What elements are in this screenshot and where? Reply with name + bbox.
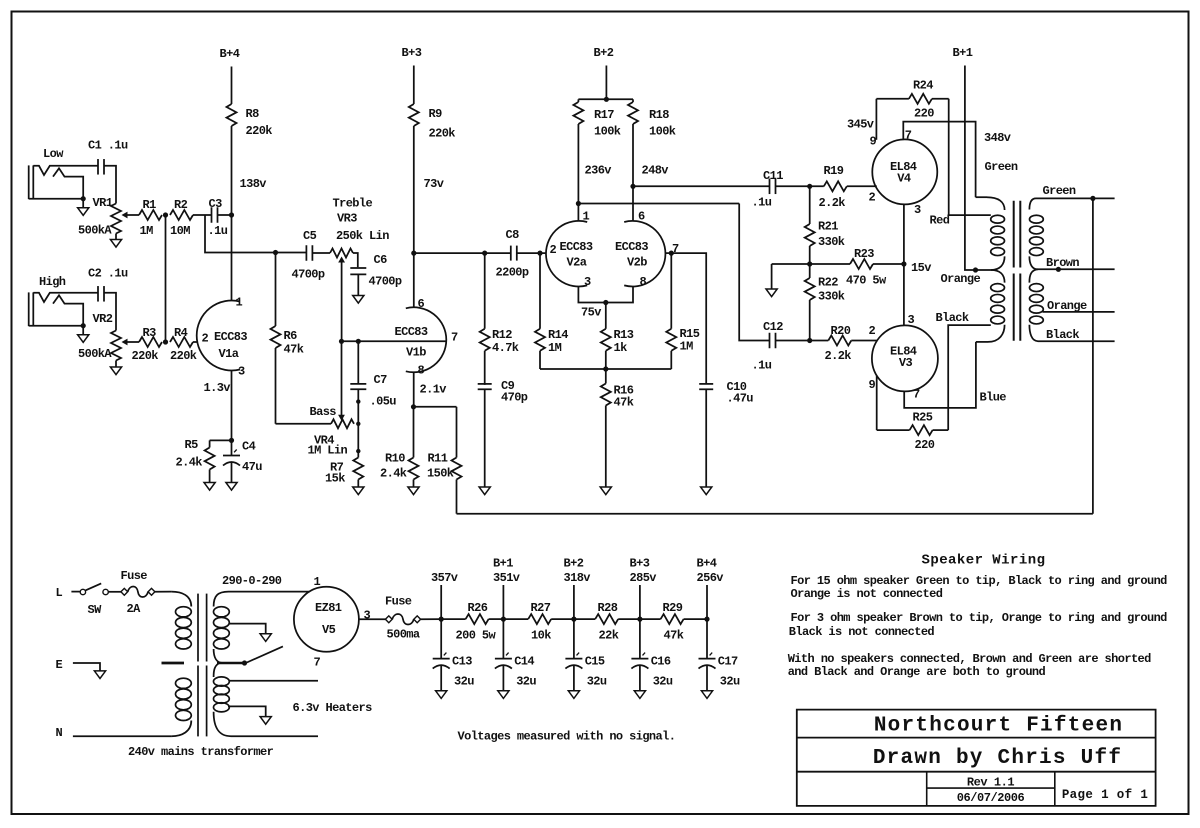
svg-text:R3: R3 — [143, 326, 157, 340]
label Black — [936, 311, 969, 325]
node 357v — [431, 571, 458, 622]
svg-text:Low: Low — [43, 147, 64, 161]
wire — [903, 122, 975, 198]
wire — [357, 274, 359, 295]
capacitor C1 — [88, 139, 128, 175]
resistor R14 — [535, 253, 568, 369]
svg-text:R20: R20 — [831, 324, 851, 338]
svg-text:2: 2 — [550, 243, 557, 257]
svg-text:7: 7 — [905, 128, 912, 142]
svg-text:V1b: V1b — [406, 346, 426, 360]
note line — [788, 665, 1046, 679]
label 345v — [847, 118, 874, 132]
svg-text:R19: R19 — [824, 164, 844, 178]
wire 6.3v heater — [229, 680, 318, 682]
junction — [273, 250, 278, 255]
label Orange primary CT — [941, 272, 981, 286]
ground — [568, 691, 579, 699]
pin 2 of V4 — [869, 191, 876, 205]
ground — [110, 234, 121, 248]
resistor R26 — [456, 601, 497, 643]
svg-text:2.2k: 2.2k — [819, 196, 846, 210]
svg-text:R24: R24 — [913, 79, 933, 93]
ground — [94, 671, 105, 679]
svg-text:V3: V3 — [899, 356, 913, 370]
svg-text:R29: R29 — [663, 601, 683, 615]
resistor R9 — [409, 104, 456, 141]
potentiometer VR4 Bass — [308, 405, 355, 458]
transformer T1 heater winding — [214, 663, 232, 736]
wire — [312, 252, 330, 254]
transformer T2 primary winding lower — [991, 270, 1005, 324]
resistor R4 — [170, 326, 197, 363]
svg-text:V4: V4 — [897, 172, 911, 186]
ground — [353, 487, 364, 495]
potentiometer VR2 — [78, 312, 139, 361]
svg-text:2.1v: 2.1v — [420, 383, 447, 397]
svg-text:15k: 15k — [325, 472, 345, 486]
resistor R12 — [480, 253, 519, 385]
ground — [436, 691, 447, 699]
capacitor C16 — [631, 619, 673, 691]
svg-text:47u: 47u — [242, 460, 262, 474]
capacitor C4 — [223, 440, 262, 483]
svg-text:Black: Black — [936, 311, 969, 325]
junction — [81, 196, 86, 201]
svg-text:10M: 10M — [170, 224, 190, 238]
junction — [482, 251, 487, 256]
svg-text:1: 1 — [314, 575, 321, 589]
node B+2 — [594, 46, 614, 60]
wire — [155, 591, 172, 593]
wire — [341, 258, 343, 341]
svg-text:C3: C3 — [209, 197, 223, 211]
svg-text:C13: C13 — [452, 655, 472, 669]
wire — [276, 423, 332, 425]
wire — [218, 214, 232, 216]
svg-text:EZ81: EZ81 — [315, 601, 342, 615]
wire — [108, 591, 121, 593]
svg-text:3: 3 — [364, 609, 371, 623]
wire — [489, 618, 504, 620]
wire — [193, 341, 197, 343]
svg-text:B+3: B+3 — [630, 557, 650, 571]
wire NFB — [1092, 198, 1094, 513]
svg-text:73v: 73v — [424, 177, 444, 191]
svg-text:470p: 470p — [501, 391, 528, 405]
transformer T2 secondary winding upper — [1029, 198, 1043, 255]
wire — [739, 204, 769, 341]
svg-text:Northcourt Fifteen: Northcourt Fifteen — [874, 715, 1123, 738]
wire — [104, 166, 116, 204]
ground — [110, 361, 121, 375]
svg-text:Fuse: Fuse — [121, 569, 148, 583]
label 240v mains transformer — [128, 745, 274, 759]
svg-text:351v: 351v — [493, 571, 520, 585]
title text — [1062, 788, 1148, 802]
svg-text:220k: 220k — [170, 349, 197, 363]
tube V2b ECC83 — [615, 210, 679, 290]
label 2.1v — [420, 383, 447, 397]
resistor R22 — [805, 264, 845, 341]
wire — [976, 269, 992, 271]
note — [458, 730, 676, 744]
title text — [967, 776, 1015, 790]
svg-text:Black: Black — [1046, 328, 1079, 342]
svg-text:SW: SW — [88, 603, 103, 617]
svg-text:C2 .1u: C2 .1u — [88, 267, 128, 281]
junction — [604, 97, 609, 102]
ground — [226, 483, 237, 491]
svg-text:248v: 248v — [642, 164, 669, 178]
junction — [603, 300, 608, 305]
wire — [578, 287, 633, 303]
wire — [772, 263, 810, 265]
svg-text:Fuse: Fuse — [385, 595, 412, 609]
tube V1a ECC83 — [197, 296, 248, 379]
svg-text:330k: 330k — [818, 290, 845, 304]
jack J2 High — [29, 292, 98, 326]
resistor R21 — [805, 186, 845, 264]
title text — [873, 747, 1122, 770]
capacitor C10 — [699, 380, 753, 487]
wire — [205, 215, 307, 253]
svg-text:3: 3 — [238, 364, 245, 378]
wire — [73, 735, 171, 737]
svg-text:1: 1 — [583, 210, 590, 224]
svg-text:C5: C5 — [303, 229, 317, 243]
label 138v — [240, 177, 267, 191]
label Brown — [1046, 256, 1079, 270]
ground — [701, 691, 712, 699]
svg-text:236v: 236v — [585, 164, 612, 178]
svg-text:VR3: VR3 — [337, 212, 357, 226]
wire — [353, 253, 358, 267]
svg-text:.1u: .1u — [752, 196, 772, 210]
jack J1 Low — [29, 165, 98, 199]
pin 3 of V4 — [914, 203, 921, 217]
pin 3 of V5 — [364, 609, 371, 623]
wire — [776, 185, 824, 187]
wire — [341, 341, 343, 415]
label Green — [985, 160, 1018, 174]
wire — [574, 618, 595, 620]
transformer T2 secondary winding lower — [1029, 269, 1043, 324]
label 348v — [984, 131, 1011, 145]
svg-text:240v mains transformer: 240v mains transformer — [128, 745, 274, 759]
capacitor C11 — [752, 169, 784, 210]
svg-text:R9: R9 — [429, 107, 443, 121]
junction — [901, 261, 906, 266]
svg-text:R11: R11 — [428, 452, 448, 466]
junction — [1056, 267, 1061, 272]
svg-text:1M: 1M — [140, 224, 154, 238]
svg-text:R17: R17 — [594, 108, 614, 122]
svg-text:B+2: B+2 — [594, 46, 614, 60]
transformer T2 primary CT — [991, 256, 1005, 270]
node B+4 256v — [697, 557, 724, 622]
junction — [356, 422, 360, 426]
wire — [413, 66, 415, 105]
transformer T2 primary top — [976, 197, 1005, 210]
svg-text:500ma: 500ma — [387, 628, 420, 642]
title text — [874, 715, 1123, 738]
svg-text:4700p: 4700p — [292, 268, 325, 282]
label Low — [43, 147, 64, 161]
heading Speaker Wiring — [922, 553, 1046, 569]
tube V5 EZ81 — [294, 587, 359, 652]
resistor R19 — [819, 164, 877, 210]
svg-text:R22: R22 — [818, 276, 838, 290]
svg-text:B+3: B+3 — [402, 46, 422, 60]
wire — [965, 66, 976, 271]
junction — [411, 404, 416, 409]
svg-text:C15: C15 — [585, 655, 605, 669]
svg-text:C4: C4 — [242, 440, 256, 454]
junction — [339, 339, 344, 344]
wire — [228, 706, 266, 716]
svg-text:R1: R1 — [143, 198, 157, 212]
junction — [356, 339, 361, 344]
svg-text:Blue: Blue — [980, 391, 1007, 405]
wire — [229, 624, 266, 634]
wire Black — [1029, 325, 1114, 341]
svg-text:220k: 220k — [246, 124, 273, 138]
title text — [957, 791, 1025, 805]
svg-text:R25: R25 — [913, 411, 933, 425]
svg-text:2: 2 — [202, 332, 209, 346]
junction — [669, 251, 674, 256]
svg-text:47k: 47k — [284, 343, 304, 357]
node B+1 — [953, 46, 973, 60]
svg-text:C11: C11 — [763, 169, 783, 183]
svg-text:1M Lin: 1M Lin — [308, 444, 348, 458]
capacitor C15 — [565, 619, 607, 691]
svg-text:Orange is not connected: Orange is not connected — [791, 587, 943, 601]
svg-text:C14: C14 — [514, 655, 534, 669]
svg-text:100k: 100k — [649, 125, 676, 139]
resistor R20 — [825, 324, 877, 363]
junction — [1090, 196, 1095, 201]
capacitor C8 — [496, 228, 529, 280]
label 15v — [911, 261, 931, 275]
junction — [163, 212, 168, 217]
ground — [78, 326, 89, 343]
svg-text:9: 9 — [869, 378, 876, 392]
capacitor C6 — [350, 253, 402, 289]
svg-text:ECC83: ECC83 — [560, 240, 593, 254]
svg-text:B+4: B+4 — [697, 557, 717, 571]
svg-text:B+4: B+4 — [220, 47, 240, 61]
wire — [578, 98, 633, 100]
wire — [231, 126, 233, 301]
resistor R15 — [666, 253, 699, 369]
svg-text:9: 9 — [870, 135, 877, 149]
svg-text:R10: R10 — [385, 452, 405, 466]
title block frame — [797, 710, 1156, 806]
wire — [421, 618, 442, 620]
junction — [807, 261, 812, 266]
svg-text:C16: C16 — [651, 655, 671, 669]
svg-text:500kA: 500kA — [78, 347, 112, 361]
resistor R7 — [325, 458, 363, 488]
pin 7 of V4 — [905, 128, 912, 142]
capacitor C13 — [433, 619, 475, 691]
svg-text:3: 3 — [914, 203, 921, 217]
resistor R25 — [877, 411, 949, 453]
svg-text:Rev 1.1: Rev 1.1 — [967, 776, 1015, 790]
transformer T1 secondary HT — [214, 592, 230, 649]
ground — [600, 487, 611, 495]
label 73v — [424, 177, 444, 191]
svg-text:3: 3 — [584, 275, 591, 289]
resistor R18 — [628, 99, 676, 186]
svg-text:285v: 285v — [630, 571, 657, 585]
svg-text:32u: 32u — [720, 675, 740, 689]
svg-text:Black is not connected: Black is not connected — [789, 625, 935, 639]
wire — [618, 618, 640, 620]
wire — [413, 126, 415, 308]
capacitor C2 — [88, 267, 128, 302]
svg-text:200 5w: 200 5w — [456, 629, 497, 643]
svg-text:N: N — [56, 726, 63, 740]
svg-text:R12: R12 — [492, 328, 512, 342]
ground — [78, 199, 89, 216]
svg-text:R8: R8 — [246, 107, 260, 121]
svg-text:VR2: VR2 — [93, 312, 113, 326]
junction — [411, 251, 416, 256]
svg-text:Green: Green — [1043, 184, 1076, 198]
svg-text:470 5w: 470 5w — [846, 274, 887, 288]
svg-text:R5: R5 — [185, 438, 199, 452]
svg-text:357v: 357v — [431, 571, 458, 585]
node B+4 — [220, 47, 240, 61]
svg-text:1M: 1M — [548, 341, 562, 355]
junction — [81, 323, 86, 328]
pin 7 of V3 — [913, 388, 920, 402]
svg-text:R28: R28 — [598, 601, 618, 615]
resistor R16 — [601, 369, 634, 487]
transformer T2 primary bottom — [976, 325, 1005, 342]
label 6.3v Heaters — [293, 701, 373, 715]
transformer T1 secondary CT — [214, 649, 246, 663]
wire — [231, 67, 233, 105]
ground — [260, 717, 271, 725]
svg-text:B+1: B+1 — [493, 557, 513, 571]
svg-text:1.3v: 1.3v — [204, 381, 231, 395]
wire — [903, 204, 905, 326]
label 248v — [642, 164, 669, 178]
label 236v — [585, 164, 612, 178]
junction — [807, 184, 812, 189]
svg-text:150k: 150k — [427, 467, 454, 481]
svg-text:VR1: VR1 — [93, 196, 113, 210]
fuse F1 2A — [121, 569, 155, 616]
svg-text:High: High — [39, 275, 66, 289]
svg-text:Page 1 of 1: Page 1 of 1 — [1062, 788, 1148, 802]
wire — [577, 204, 579, 221]
wire — [503, 618, 528, 620]
label E — [56, 658, 63, 672]
svg-text:Drawn by Chris Uff: Drawn by Chris Uff — [873, 747, 1122, 770]
junction — [356, 449, 360, 453]
svg-text:330k: 330k — [818, 235, 845, 249]
svg-text:.47u: .47u — [727, 392, 754, 406]
resistor R13 — [601, 303, 634, 370]
wire — [540, 368, 671, 370]
svg-text:32u: 32u — [516, 675, 536, 689]
node B+3 — [402, 46, 422, 60]
svg-text:32u: 32u — [587, 675, 607, 689]
capacitor C14 — [495, 619, 537, 691]
svg-text:Orange: Orange — [941, 272, 981, 286]
capacitor C9 — [478, 379, 528, 487]
capacitor C5 — [292, 229, 325, 282]
svg-text:2200p: 2200p — [496, 266, 529, 280]
svg-text:290-0-290: 290-0-290 — [222, 574, 282, 588]
svg-text:7: 7 — [314, 656, 321, 670]
capacitor C17 — [699, 619, 741, 691]
wire — [671, 253, 706, 384]
svg-text:75v: 75v — [581, 306, 601, 320]
wire — [876, 375, 878, 430]
label Black secondary — [1046, 328, 1079, 342]
wire — [413, 372, 415, 407]
svg-text:15v: 15v — [911, 261, 931, 275]
svg-text:2.2k: 2.2k — [825, 349, 852, 363]
label Blue — [980, 391, 1007, 405]
svg-text:C17: C17 — [718, 655, 738, 669]
transformer T2 core — [1014, 201, 1021, 341]
pin 2 of V3 — [869, 324, 876, 338]
svg-text:345v: 345v — [847, 118, 874, 132]
resistor R27 — [528, 601, 551, 643]
label Green secondary — [1043, 184, 1076, 198]
label N — [56, 726, 63, 740]
svg-text:R2: R2 — [174, 198, 188, 212]
svg-text:.05u: .05u — [370, 395, 397, 409]
wire — [578, 203, 739, 205]
resistor R8 — [227, 104, 273, 138]
pin 7 of V5 — [314, 656, 321, 670]
wire — [605, 66, 607, 100]
svg-text:Orange: Orange — [1047, 299, 1087, 313]
pin 1 of V5 — [314, 575, 321, 589]
ground — [479, 487, 490, 495]
pin 3 of V3 — [908, 313, 915, 327]
svg-text:With no speakers connected, Br: With no speakers connected, Brown and Gr… — [788, 652, 1151, 666]
svg-text:32u: 32u — [653, 675, 673, 689]
svg-text:R23: R23 — [854, 247, 874, 261]
note line — [788, 652, 1151, 666]
svg-text:.1u: .1u — [752, 359, 772, 373]
resistor R28 — [595, 601, 619, 643]
svg-text:R26: R26 — [468, 601, 488, 615]
transformer T1 shield stub — [162, 662, 185, 665]
wire — [551, 618, 574, 620]
svg-text:C6: C6 — [374, 253, 388, 267]
wire — [640, 618, 661, 620]
ground — [353, 296, 364, 304]
svg-text:ECC83: ECC83 — [395, 325, 428, 339]
svg-text:1k: 1k — [614, 341, 628, 355]
svg-text:R6: R6 — [284, 329, 298, 343]
potentiometer VR1 — [78, 196, 139, 238]
wire — [104, 293, 116, 331]
svg-text:7: 7 — [451, 331, 458, 345]
wire — [73, 663, 100, 671]
svg-text:220: 220 — [914, 107, 934, 121]
